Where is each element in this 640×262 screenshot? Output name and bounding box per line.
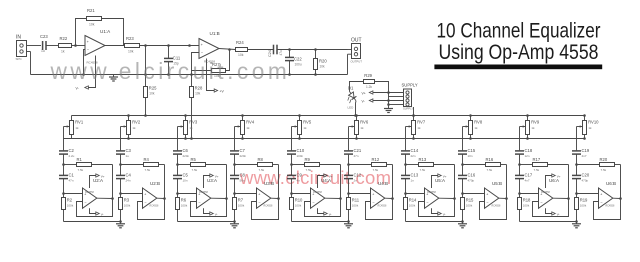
svg-text:7.5k: 7.5k: [78, 168, 84, 172]
svg-text:470p: 470p: [582, 179, 589, 183]
wire RV3 wiper down: [177, 127, 179, 151]
svg-text:U4:A: U4:A: [321, 178, 331, 183]
svg-text:1k: 1k: [132, 126, 136, 130]
svg-text:RV4: RV4: [246, 120, 255, 125]
resistor R28: [190, 71, 203, 140]
svg-text:D1: D1: [348, 86, 354, 91]
potentiometer RV4: [235, 114, 255, 140]
op-amp U2:A: [83, 178, 104, 208]
ground band pair: [230, 220, 239, 228]
resistor R20: [577, 157, 621, 172]
wire feedback loop: [252, 165, 280, 220]
svg-text:100k: 100k: [580, 204, 587, 208]
ground band pair: [572, 220, 581, 228]
svg-text:C14: C14: [411, 148, 419, 153]
svg-text:Using Op-Amp 4558: Using Op-Amp 4558: [439, 39, 599, 64]
svg-text:R16: R16: [486, 157, 494, 162]
wire R29 right to V+ node: [375, 82, 389, 93]
wire OUT pin2 to return bus: [347, 54, 349, 74]
op-amp U1:A: [85, 29, 111, 65]
svg-text:R7: R7: [238, 198, 244, 203]
power pin +V of U1:B: [207, 59, 225, 94]
potentiometer RV7: [406, 114, 426, 140]
svg-text:10n: 10n: [183, 179, 188, 183]
wire: [575, 154, 578, 175]
svg-text:220n: 220n: [183, 154, 190, 158]
svg-text:10k: 10k: [89, 23, 95, 27]
svg-text:C5: C5: [183, 173, 189, 178]
svg-text:U1:B: U1:B: [210, 31, 220, 36]
svg-text:C2: C2: [69, 148, 75, 153]
power pin V- of U2:A: [90, 208, 104, 216]
svg-text:100n: 100n: [297, 154, 304, 158]
svg-text:V-: V-: [329, 212, 332, 216]
wire feedback loop: [138, 165, 166, 220]
svg-text:100k: 100k: [238, 204, 245, 208]
capacitor C13: [401, 173, 419, 183]
ground band pair: [116, 220, 125, 228]
wire R24 to C24: [248, 49, 274, 51]
svg-text:RV5: RV5: [303, 120, 312, 125]
svg-text:C23: C23: [40, 34, 48, 39]
wire: [62, 154, 65, 175]
capacitor C2: [59, 148, 75, 158]
svg-text:U6:A: U6:A: [549, 178, 559, 183]
svg-text:22n: 22n: [411, 154, 416, 158]
svg-text:R22: R22: [60, 36, 68, 41]
svg-text:100k: 100k: [466, 204, 473, 208]
resistor R1: [64, 157, 113, 172]
wire ground rail segment: [178, 221, 235, 223]
svg-text:C20: C20: [582, 173, 590, 178]
svg-text:10n: 10n: [468, 154, 473, 158]
power pin V- of U5:A: [432, 208, 446, 216]
resistor R7: [233, 198, 245, 210]
wire R29 left to LED D1: [350, 82, 364, 92]
connector J2 OUT: [348, 38, 363, 64]
svg-text:RC4558: RC4558: [541, 191, 550, 194]
wire non-inverting input: [235, 193, 257, 195]
svg-text:100k: 100k: [409, 204, 416, 208]
svg-text:100k: 100k: [352, 204, 359, 208]
power pin V+ of U5:A: [432, 174, 447, 188]
svg-text:V-: V-: [101, 212, 104, 216]
svg-text:1k: 1k: [303, 126, 307, 130]
svg-text:C22: C22: [294, 57, 302, 62]
wire IN pin2 down to return bus: [30, 52, 32, 75]
resistor R24: [236, 40, 248, 57]
wire: [518, 179, 521, 198]
capacitor C19: [572, 148, 590, 158]
svg-text:OUT: OUT: [351, 38, 362, 44]
potentiometer RV3: [178, 114, 198, 140]
svg-text:R2: R2: [67, 198, 73, 203]
wire RV1 wiper down: [63, 127, 65, 151]
wire: [405, 210, 407, 222]
power pin V+ of U6:A: [546, 174, 561, 188]
svg-text:R24: R24: [236, 40, 244, 45]
svg-text:U5:A: U5:A: [435, 178, 445, 183]
wire ground rail segment: [64, 221, 121, 223]
svg-text:R1: R1: [77, 157, 83, 162]
wire RV4 wiper down: [234, 127, 236, 151]
svg-text:1.2k: 1.2k: [366, 85, 372, 89]
wire: [347, 179, 350, 198]
op-amp U3:A: [197, 178, 218, 208]
capacitor C8: [230, 173, 246, 183]
wire non-inverting input: [520, 193, 539, 195]
svg-text:1k: 1k: [474, 126, 478, 130]
wire U1:A non-inverting input to return bus: [82, 50, 85, 76]
capacitor C11: [164, 46, 181, 76]
svg-text:C24: C24: [268, 50, 272, 57]
svg-text:V-: V-: [443, 212, 446, 216]
svg-text:C9: C9: [297, 173, 303, 178]
wire: [234, 210, 236, 222]
svg-text:RC4558: RC4558: [150, 205, 159, 208]
svg-text:7.5k: 7.5k: [373, 168, 379, 172]
svg-text:R20: R20: [319, 59, 327, 64]
svg-text:24n: 24n: [126, 179, 131, 183]
svg-text:RV8: RV8: [474, 120, 483, 125]
svg-text:100k: 100k: [181, 204, 188, 208]
wire: [120, 210, 122, 222]
capacitor C5: [173, 173, 189, 183]
wire RV8 wiper down: [462, 127, 464, 151]
wire feedback loop: [305, 165, 342, 217]
svg-text:100k: 100k: [67, 204, 74, 208]
wire non-inverting input: [292, 193, 311, 195]
svg-text:1k: 1k: [246, 126, 250, 130]
power pin V- of U3:A: [204, 208, 218, 216]
svg-text:U4:B: U4:B: [378, 181, 388, 186]
wire return bus: [31, 74, 348, 76]
svg-text:12n: 12n: [525, 154, 530, 158]
wire C24 to OUT, node C: [277, 48, 348, 51]
potentiometer RV2: [121, 114, 141, 140]
potentiometer RV10: [577, 114, 600, 140]
title text: [434, 18, 602, 70]
svg-text:RV6: RV6: [360, 120, 369, 125]
svg-text:1n: 1n: [411, 179, 415, 183]
op-amp U6:B: [599, 181, 617, 208]
wire U1:A output to R23: [105, 45, 125, 47]
watermark gray: [50, 58, 291, 84]
wire non-inverting input: [577, 193, 599, 195]
resistor R20 output load: [314, 50, 328, 76]
svg-text:7.5k: 7.5k: [259, 168, 265, 172]
wire output: [385, 197, 393, 199]
svg-text:R23: R23: [126, 36, 134, 41]
connector J1 IN: [16, 35, 31, 62]
capacitor C12: [344, 173, 362, 183]
svg-text:7.5k: 7.5k: [306, 168, 312, 172]
wire feedback loop: [533, 165, 570, 217]
svg-text:U3:B: U3:B: [264, 181, 274, 186]
svg-text:47n: 47n: [354, 154, 359, 158]
wire feedback loop: [419, 165, 456, 217]
svg-text:7.5k: 7.5k: [420, 168, 426, 172]
wire RV10 wiper down: [576, 127, 578, 151]
svg-text:47u: 47u: [279, 50, 283, 56]
svg-text:RC4558: RC4558: [313, 191, 322, 194]
svg-text:1u: 1u: [41, 49, 45, 53]
svg-text:RV2: RV2: [132, 120, 141, 125]
svg-text:C19: C19: [582, 148, 590, 153]
potentiometer RV9: [520, 114, 540, 140]
svg-text:U6:B: U6:B: [606, 181, 616, 186]
svg-text:RC4558: RC4558: [264, 205, 273, 208]
capacitor C14: [401, 148, 419, 158]
wire R23 to U1:B input, node B: [140, 44, 200, 47]
svg-text:V+: V+: [101, 174, 105, 178]
capacitor C20: [572, 173, 590, 183]
wire output: [439, 197, 455, 199]
svg-text:4n7: 4n7: [582, 154, 587, 158]
wire: [177, 210, 179, 222]
wire: [576, 210, 578, 222]
watermark pink: [239, 167, 391, 188]
wire U1:B output run: [219, 48, 236, 51]
potentiometer RV5: [292, 114, 312, 140]
op-amp U1:B: [199, 31, 220, 64]
svg-text:C4: C4: [126, 173, 132, 178]
wire: [461, 179, 464, 198]
svg-text:R20: R20: [600, 157, 608, 162]
resistor R4: [121, 157, 165, 172]
svg-text:V+: V+: [557, 174, 561, 178]
wire output: [553, 197, 569, 199]
svg-text:10k: 10k: [195, 92, 201, 96]
wire RV6 wiper down: [348, 127, 350, 151]
svg-text:C15: C15: [468, 148, 476, 153]
resistor R22: [59, 36, 72, 53]
svg-text:100k: 100k: [523, 204, 530, 208]
wire: [119, 154, 122, 175]
wire RV7 wiper down: [405, 127, 407, 151]
wire RV5 wiper down: [291, 127, 293, 151]
wire output: [157, 197, 165, 199]
svg-text:RC4558: RC4558: [378, 205, 387, 208]
capacitor C7: [230, 148, 247, 158]
svg-text:10k: 10k: [238, 53, 244, 57]
wire supply to rail: [412, 107, 415, 117]
svg-text:www.elcircuit.com: www.elcircuit.com: [50, 58, 291, 84]
op-amp U5:A: [425, 178, 446, 208]
capacitor C16: [458, 173, 476, 183]
wire feedback loop: [77, 165, 114, 217]
wire output: [97, 197, 113, 199]
svg-text:1k: 1k: [531, 126, 535, 130]
svg-text:U2:B: U2:B: [150, 181, 160, 186]
svg-text:C3: C3: [126, 148, 132, 153]
capacitor C4: [116, 173, 132, 183]
resistor R29: [364, 73, 375, 89]
capacitor C6: [173, 148, 190, 158]
svg-text:V+: V+: [443, 174, 447, 178]
power flag V+: [362, 91, 404, 95]
resistor R5: [178, 157, 227, 172]
wire non-inverting input: [349, 193, 371, 195]
svg-text:R11: R11: [352, 198, 360, 203]
svg-text:R3: R3: [124, 198, 130, 203]
capacitor C1: [59, 173, 75, 183]
svg-text:RV3: RV3: [189, 120, 198, 125]
resistor R8: [235, 157, 279, 172]
capacitor C17: [515, 173, 533, 183]
resistor R23: [125, 36, 140, 53]
svg-text:C7: C7: [240, 148, 246, 153]
wire output: [211, 197, 227, 199]
power pin V+ of U3:A: [204, 174, 219, 188]
capacitor C18: [515, 148, 533, 158]
resistor R25: [144, 46, 158, 117]
capacitor C3: [116, 148, 132, 158]
resistor R19: [575, 198, 589, 210]
wire ground rail segment: [292, 221, 349, 223]
svg-text:IN: IN: [16, 35, 21, 41]
capacitor C15: [458, 148, 476, 158]
wire: [119, 179, 122, 198]
wire: [461, 154, 464, 175]
wire D1 cathode to rail: [354, 101, 357, 117]
potentiometer RV8: [463, 114, 483, 140]
svg-text:4n7: 4n7: [525, 179, 530, 183]
svg-text:R8: R8: [258, 157, 264, 162]
svg-text:SUPPLY: SUPPLY: [402, 83, 418, 88]
resistor R10: [290, 198, 304, 210]
svg-text:R4: R4: [144, 157, 150, 162]
capacitor C22: [285, 50, 302, 76]
svg-text:R13: R13: [419, 157, 427, 162]
wire ground rail segment: [520, 221, 577, 223]
ground band pair: [344, 220, 353, 228]
svg-text:7.5k: 7.5k: [145, 168, 151, 172]
resistor R17: [520, 157, 569, 172]
wire IN pin1 to C23: [31, 45, 42, 47]
wire: [62, 179, 65, 198]
svg-text:47n: 47n: [69, 179, 74, 183]
wire feedback loop: [366, 165, 394, 220]
svg-text:R28: R28: [195, 86, 203, 91]
capacitor C21: [344, 148, 362, 158]
svg-text:V-: V-: [76, 87, 79, 91]
svg-text:V-: V-: [362, 99, 365, 103]
capacitor C9: [287, 173, 303, 183]
power pin V+ of U2:A: [90, 174, 105, 188]
wire: [290, 154, 293, 175]
wire: [176, 179, 179, 198]
power flag V-: [362, 99, 404, 103]
svg-text:100k: 100k: [295, 204, 302, 208]
svg-text:+V: +V: [220, 90, 225, 94]
svg-text:2.2u: 2.2u: [69, 154, 75, 158]
svg-text:V-: V-: [557, 212, 560, 216]
potentiometer RV1: [64, 116, 84, 139]
svg-text:C10: C10: [297, 148, 305, 153]
wire: [348, 210, 350, 222]
svg-text:1k: 1k: [189, 126, 193, 130]
wire: [404, 179, 407, 198]
capacitor C24: [268, 45, 283, 57]
capacitor C10: [287, 148, 305, 158]
svg-text:10k: 10k: [149, 92, 155, 96]
svg-text:RV7: RV7: [417, 120, 426, 125]
svg-text:R9: R9: [305, 157, 311, 162]
ground supply: [384, 108, 393, 113]
svg-text:10k: 10k: [128, 49, 134, 53]
svg-text:RC4558: RC4558: [199, 191, 208, 194]
wire output: [499, 197, 507, 199]
svg-text:C1: C1: [69, 173, 75, 178]
wire non-inverting input: [121, 193, 143, 195]
svg-text:RC4558: RC4558: [85, 191, 94, 194]
resistor R3: [119, 198, 131, 210]
svg-text:C6: C6: [183, 148, 189, 153]
svg-text:V+: V+: [362, 91, 366, 95]
wire top rail: [72, 115, 585, 117]
svg-text:U3:A: U3:A: [207, 178, 217, 183]
svg-text:7.5k: 7.5k: [192, 168, 198, 172]
wire non-inverting input: [406, 193, 425, 195]
op-amp U5:B: [485, 181, 503, 208]
svg-text:V+: V+: [329, 174, 333, 178]
svg-text:C17: C17: [525, 173, 533, 178]
wire: [518, 154, 521, 175]
wire: [63, 210, 65, 222]
svg-text:R19: R19: [580, 198, 588, 203]
wire: [290, 179, 293, 198]
svg-text:4n: 4n: [297, 179, 301, 183]
potentiometer RV6: [349, 114, 369, 140]
svg-text:C8: C8: [240, 173, 246, 178]
resistor R16: [463, 157, 507, 172]
svg-text:100k: 100k: [124, 204, 131, 208]
svg-text:SUPPLY: SUPPLY: [403, 107, 413, 111]
svg-text:RC4558: RC4558: [492, 205, 501, 208]
wire: [462, 210, 464, 222]
wire U1:B inverting input to R27: [190, 53, 211, 76]
svg-text:U1:A: U1:A: [100, 29, 111, 34]
wire: [291, 210, 293, 222]
svg-text:1k: 1k: [360, 126, 364, 130]
wire RV9 wiper down: [519, 127, 521, 151]
wire feedback loop: [594, 165, 622, 220]
svg-text:U5:B: U5:B: [492, 181, 502, 186]
svg-text:R12: R12: [372, 157, 380, 162]
wire output: [613, 197, 621, 199]
resistor R18: [518, 198, 532, 210]
wire: [347, 154, 350, 175]
wire bottom rail: [64, 138, 585, 140]
resistor R9: [292, 157, 341, 172]
wire output: [325, 197, 341, 199]
power pin V+ of U4:A: [318, 174, 333, 188]
svg-text:R25: R25: [149, 86, 157, 91]
capacitor C23: [40, 34, 48, 53]
svg-text:7.5k: 7.5k: [487, 168, 493, 172]
op-amp U3:B: [257, 181, 275, 208]
svg-text:RV10: RV10: [588, 120, 599, 125]
svg-text:C13: C13: [411, 173, 419, 178]
svg-text:C18: C18: [525, 148, 533, 153]
connector J3 SUPPLY: [402, 83, 418, 111]
svg-text:1k: 1k: [417, 126, 421, 130]
svg-text:R5: R5: [191, 157, 197, 162]
resistor R21 feedback of U1:A: [76, 8, 124, 46]
wire ground rail segment: [406, 221, 463, 223]
svg-text:V-: V-: [215, 212, 218, 216]
